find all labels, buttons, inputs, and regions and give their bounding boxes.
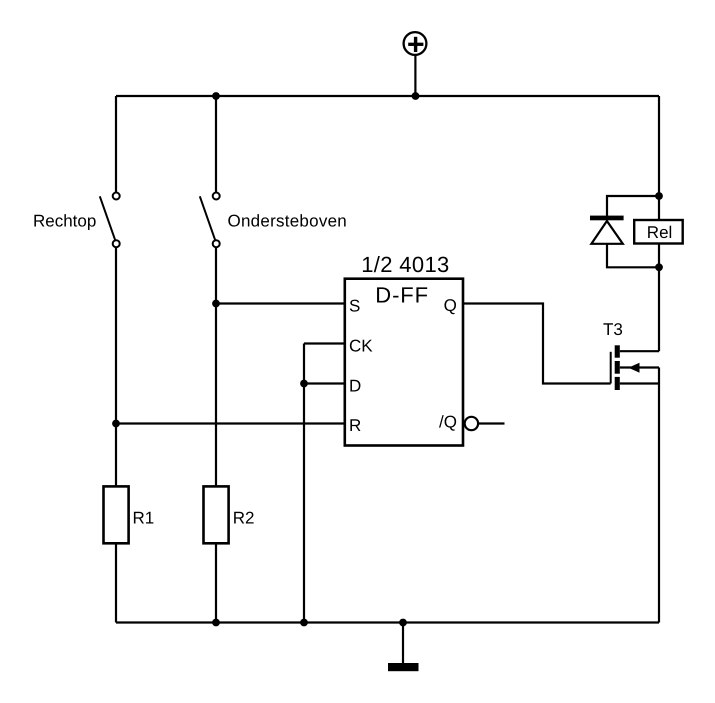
node ground junction: [399, 619, 407, 627]
wire diode top: [607, 196, 659, 216]
switch S2 Ondersteboven: [200, 193, 220, 248]
svg-text:Rel: Rel: [647, 223, 673, 242]
svg-text:1/2 4013: 1/2 4013: [361, 252, 449, 277]
node relay top junction: [655, 192, 663, 200]
node D junction: [300, 380, 308, 388]
wire branch2 mid: [215, 247, 217, 486]
wire CK branch vertical: [303, 344, 305, 623]
wire branch2 upper: [215, 96, 217, 193]
wire D pin: [304, 382, 345, 384]
wire right rail lower: [658, 368, 660, 623]
wire source: [620, 382, 659, 384]
wire bottom rail: [116, 621, 659, 623]
switch S1 Rechtop: [100, 193, 120, 248]
node bottom branch2 junction: [212, 619, 220, 627]
svg-text:Ondersteboven: Ondersteboven: [228, 212, 348, 231]
svg-text:D-FF: D-FF: [375, 283, 429, 308]
svg-text:R1: R1: [133, 508, 155, 527]
wire drain: [620, 350, 659, 352]
svg-text:CK: CK: [349, 336, 373, 355]
svg-text:R: R: [349, 416, 361, 435]
wire Q output: [463, 304, 611, 384]
wire diode bottom: [607, 244, 659, 267]
power supply plus terminal: [404, 32, 427, 55]
resistor R2: [204, 486, 229, 543]
ground: [388, 663, 419, 671]
svg-text:S: S: [349, 296, 360, 315]
wire right rail upper: [658, 96, 660, 220]
node top power junction: [412, 92, 420, 100]
wire branch2 lower: [215, 543, 217, 623]
node R junction: [112, 420, 120, 428]
node bottom CK junction: [300, 619, 308, 627]
svg-text:T3: T3: [603, 320, 623, 339]
svg-text:D: D: [349, 376, 361, 395]
/Q inversion bubble: [465, 417, 478, 430]
transistor T3 MOSFET: [611, 345, 640, 390]
op-amp U1 D flip-flop box: [345, 279, 463, 446]
wire ground stub: [402, 623, 404, 665]
wire S pin: [216, 302, 345, 304]
node S junction: [212, 300, 220, 308]
svg-text:R2: R2: [233, 508, 255, 527]
svg-text:Q: Q: [444, 296, 457, 315]
svg-text:/Q: /Q: [439, 413, 457, 432]
relay Rel coil box: [634, 220, 683, 244]
resistor R1: [104, 486, 129, 543]
wire top rail: [116, 95, 659, 97]
wire power stub: [414, 54, 416, 96]
node top branch2 junction: [212, 92, 220, 100]
wire CK pin: [304, 342, 345, 344]
svg-text:Rechtop: Rechtop: [33, 212, 96, 231]
wire left rail lower: [115, 543, 117, 623]
wire body: [620, 366, 659, 368]
diode D1 flyback: [590, 216, 624, 244]
wire left rail upper: [115, 96, 117, 193]
node relay bottom junction: [655, 263, 663, 271]
wire R pin: [116, 422, 345, 424]
wire left rail mid: [115, 247, 117, 486]
wire /Q stub: [478, 422, 504, 424]
wire right rail mid: [658, 244, 660, 352]
